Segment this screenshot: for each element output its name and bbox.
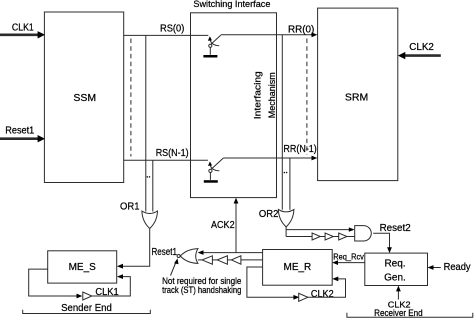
wire: [320, 236, 325, 238]
wire buffer CLK1 to ME_S: [92, 274, 131, 296]
svg-text:Reset1: Reset1: [152, 247, 178, 258]
svg-text:Interfacing: Interfacing: [253, 71, 264, 119]
svg-text:ME_S: ME_S: [69, 262, 97, 273]
wire RR(N-1): [223, 144, 317, 161]
svg-text:Gen.: Gen.: [384, 272, 406, 283]
annotation arrow to Reset1: [162, 258, 241, 294]
svg-text:Req.: Req.: [384, 258, 405, 269]
dots more taps right: [284, 172, 288, 174]
svg-text:ACK2: ACK2: [211, 220, 235, 231]
wire NOR bottom input chain: [198, 259, 202, 261]
wire ME_S feedback loop: [29, 269, 83, 298]
block SRM: [318, 8, 398, 181]
svg-text:RR(N-1): RR(N-1): [283, 144, 316, 155]
buffer B1 (delay chain right): [312, 233, 320, 240]
svg-text:Reset2: Reset2: [380, 223, 411, 234]
svg-text:CLK2: CLK2: [311, 289, 334, 300]
CLK2 input arrow (into SRM): [398, 42, 441, 59]
wire tap RS(N-1) to OR1: [152, 160, 154, 211]
svg-text:ME_R: ME_R: [284, 262, 312, 273]
dots more taps left: [147, 176, 151, 178]
buffer B3: [339, 233, 347, 240]
buffer B2: [325, 233, 333, 240]
block SSM: [44, 12, 123, 183]
buffer CLK1: [83, 287, 119, 300]
Reset1 input arrow: [0, 126, 45, 143]
bracket Receiver End: [347, 313, 473, 318]
svg-text:RS(0): RS(0): [160, 24, 184, 35]
label Interfacing Mechanism: [253, 71, 278, 119]
bracket Sender End: [23, 303, 151, 314]
wire tap RS(0) to OR1: [145, 35, 147, 211]
svg-text:CLK1: CLK1: [95, 287, 118, 298]
Ready input arrow: [428, 262, 471, 273]
OR gate OR2: [259, 209, 294, 227]
svg-text:OR1: OR1: [120, 202, 140, 213]
svg-text:Req_Rcv: Req_Rcv: [333, 253, 364, 262]
svg-text:CLK2: CLK2: [409, 42, 434, 53]
wire Reset2 (AND out to Req.Gen): [373, 223, 411, 253]
buffer CLK2: [299, 289, 334, 301]
ground (SW1): [203, 55, 217, 58]
svg-text:SSM: SSM: [73, 92, 96, 104]
wire RR(0): [221, 24, 318, 37]
wire: [227, 259, 231, 261]
dashed bus left: [130, 39, 132, 157]
block Req. Gen.: [365, 253, 428, 285]
wire Req_Rcv (Req.Gen to ME_R): [332, 253, 365, 265]
svg-text:Receiver End: Receiver End: [374, 308, 423, 318]
block Switching Interface: [191, 0, 277, 198]
block ME_S: [48, 251, 117, 283]
wire: [241, 259, 263, 261]
dashed bus right: [306, 39, 308, 155]
buffer B6 (left-pointing): [231, 256, 241, 264]
svg-text:Mechanism: Mechanism: [267, 72, 278, 118]
svg-text:Reset1: Reset1: [5, 126, 34, 137]
wire buffer CLK2 to ME_R: [308, 277, 346, 298]
svg-text:SRM: SRM: [345, 91, 368, 103]
wire tap RR(0) to OR2: [281, 35, 283, 210]
wire OR1 output to ME_S: [117, 229, 150, 269]
OR gate OR1: [120, 202, 158, 229]
wire RS(0): [124, 24, 209, 36]
svg-text:Sender End: Sender End: [61, 303, 112, 314]
CLK1 input arrow: [0, 23, 45, 39]
wire: [347, 236, 355, 238]
svg-text:track (ST) handshaking: track (ST) handshaking: [162, 285, 241, 295]
wire RS(N-1): [124, 148, 208, 160]
wire tap RR(N-1) to OR2: [289, 158, 291, 210]
svg-text:RR(0): RR(0): [288, 24, 314, 35]
ground (SW2): [204, 180, 218, 183]
NOR gate Reset1: [152, 247, 198, 264]
svg-text:RS(N-1): RS(N-1): [156, 148, 189, 159]
wire OR2 output / branch to AND: [286, 227, 355, 237]
svg-text:Ready: Ready: [444, 262, 471, 273]
wire ME_R feedback loop: [247, 267, 299, 300]
svg-text:CLK1: CLK1: [12, 23, 34, 34]
wire ME_R to NOR top input: [198, 250, 263, 255]
switch SW1 (top, RS(0)-RR(0)): [208, 35, 221, 55]
svg-text:Switching Interface: Switching Interface: [193, 0, 270, 10]
switch SW2 (bottom, RS(N-1)-RR(N-1)): [208, 158, 223, 180]
CLK2 input arrow (into Req.Gen): [374, 286, 423, 318]
wire: [212, 259, 217, 261]
AND gate U1: [355, 226, 372, 241]
block ME_R: [263, 250, 333, 286]
buffer B5 (left-pointing): [217, 256, 227, 264]
wire: [333, 236, 338, 238]
buffer B4 (left-pointing): [202, 256, 212, 264]
wire ACK2: [211, 198, 238, 253]
svg-text:OR2: OR2: [259, 209, 279, 220]
